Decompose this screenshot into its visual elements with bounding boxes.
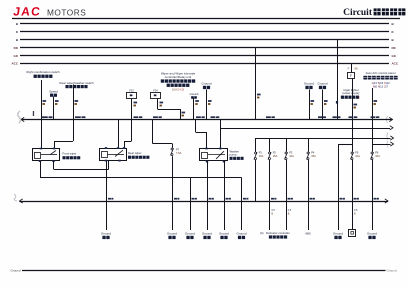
wire main to box3 right pin — [220, 120, 222, 149]
header rule — [12, 18, 400, 20]
wire code at 74.5 — [75, 100, 79, 102]
wire code at 310.5 — [311, 100, 315, 102]
wire jog to fuse172 — [152, 120, 154, 144]
svg-text:Ground: Ground — [387, 268, 397, 272]
wire code at 181.5 — [182, 112, 186, 114]
svg-text:5A: 5A — [355, 68, 358, 71]
main wire left arrow — [21, 117, 24, 121]
connector code B-16 on ground bus — [226, 198, 229, 200]
svg-text:Ground: Ground — [167, 231, 177, 235]
fuse P2 stub — [269, 138, 271, 152]
fuse F172 — [171, 148, 173, 150]
connector code B-18 on ground bus — [271, 198, 274, 200]
fuse P3 — [285, 152, 287, 154]
wire K2 jog — [157, 99, 159, 110]
svg-text:10A: 10A — [355, 154, 360, 158]
wire code at 55 — [55, 100, 59, 102]
bus line B1 — [20, 23, 389, 25]
connector code B-17 on ground bus — [243, 198, 246, 200]
svg-text:controller/Relay unit: controller/Relay unit — [165, 75, 192, 79]
fuse P3 stub — [286, 138, 288, 152]
wire ground r1 drop — [309, 90, 311, 120]
svg-text:7.5A: 7.5A — [176, 151, 182, 155]
connector code I-MR4 A5 on main wire — [211, 116, 216, 118]
svg-text:Ground: Ground — [101, 231, 111, 235]
arrow y144 — [390, 142, 393, 146]
svg-text:F: F — [350, 74, 352, 78]
svg-text:ACC: ACC — [12, 61, 19, 65]
wire fuse P6 down — [372, 160, 374, 230]
svg-text:15A: 15A — [311, 154, 316, 158]
svg-text:P6: P6 — [375, 150, 379, 154]
svg-text:P4: P4 — [311, 150, 315, 154]
connector code B-23 on ground bus — [374, 198, 377, 200]
svg-text:pump: pump — [230, 153, 237, 157]
stray code tick — [33, 111, 34, 116]
connector code I-MR11 A05 on main wire — [75, 116, 81, 118]
wire v338 down — [338, 144, 340, 230]
branch y144 right — [372, 144, 391, 146]
M1 pins — [40, 148, 42, 150]
connector code B-15 on ground bus — [209, 198, 212, 200]
wire jog73 to box1 — [54, 141, 73, 143]
connector code B-13 on ground bus — [174, 198, 177, 200]
svg-text:Ground: Ground — [333, 231, 343, 235]
wire v241 down — [241, 178, 243, 231]
connector code B-12 on ground bus — [108, 198, 111, 200]
connector code I-MR8 A4 on main wire — [371, 116, 376, 118]
connector code B-21 on ground bus — [340, 198, 343, 200]
svg-text:MOTORS: MOTORS — [47, 8, 86, 18]
scan artifact squiggle — [18, 111, 21, 123]
bottom ground rail — [22, 270, 386, 272]
wire fuse P3 down — [286, 160, 288, 230]
svg-text:P2: P2 — [273, 150, 277, 154]
fuse P1 — [255, 152, 257, 154]
wire code at 133.5 — [134, 102, 138, 104]
wire jog to box3 left pin — [195, 120, 197, 133]
rear wiper motor M2 box — [100, 149, 127, 161]
main wire — [21, 119, 393, 121]
wire code at 159.5 — [160, 102, 164, 104]
svg-text:Ground: Ground — [201, 82, 211, 86]
scan artifact squiggle 2 — [14, 194, 17, 201]
main wire right arrow — [389, 117, 392, 121]
fuse P6 — [371, 152, 373, 154]
svg-text:10A: 10A — [375, 154, 380, 158]
bus line K2 — [20, 31, 389, 33]
svg-text:Ground: Ground — [185, 231, 195, 235]
fuse P2 — [269, 152, 271, 154]
svg-text:10A: 10A — [289, 154, 294, 158]
svg-text:P3: P3 — [289, 150, 293, 154]
svg-text:Front wiper: Front wiper — [63, 151, 77, 155]
wire v41 — [41, 80, 43, 149]
wire fuse P1 down — [255, 160, 257, 201]
wire main to box2 pin118 — [118, 120, 120, 149]
wire bus3 to main at x337 — [337, 40, 339, 120]
svg-text:Ground: Ground — [367, 231, 377, 235]
bus line B3 — [20, 39, 389, 41]
connector box K1 — [127, 93, 137, 99]
svg-text:Defroster controller: Defroster controller — [266, 231, 290, 235]
wire v73 — [73, 85, 75, 142]
wire code at 195.3 — [195, 100, 199, 102]
branch y144 left — [338, 144, 352, 146]
svg-text:power supply: power supply — [342, 91, 360, 95]
arrow y138 — [390, 136, 393, 140]
wire v194 — [193, 98, 195, 120]
arrow y128 — [390, 126, 393, 130]
fuse P4 stub — [308, 138, 310, 152]
svg-text:Ground: Ground — [202, 231, 212, 235]
bus line DK4 — [20, 47, 389, 49]
wire M1 pin40 down — [40, 161, 42, 178]
fuse P4 — [307, 152, 309, 154]
svg-text:8|6 4|11 2|7: 8|6 4|11 2|7 — [373, 84, 388, 88]
svg-text:Right combination switch: Right combination switch — [26, 70, 60, 74]
svg-text:P5: P5 — [355, 150, 359, 154]
ground bus wire — [20, 201, 389, 203]
svg-text:F24: F24 — [153, 89, 158, 92]
wire fuse P2 down — [269, 160, 271, 230]
connector code I-MR7 A2 on main wire — [349, 116, 354, 118]
ground bus left arrow — [20, 199, 23, 203]
connector code B-22 on ground bus — [354, 198, 357, 200]
wire fuse P5 down — [352, 160, 354, 230]
wire M1 pin53 to M2 — [53, 161, 55, 169]
connector code I-MR2 A3 on main wire — [153, 116, 158, 118]
wire v53 — [53, 97, 55, 120]
svg-text:Ground: Ground — [304, 82, 314, 86]
bus line ACC6 — [20, 63, 389, 65]
fuse bus y138 — [256, 138, 391, 140]
wire code at 324 — [324, 100, 328, 102]
bus line GK5 — [20, 55, 389, 57]
svg-text:ABS: ABS — [305, 231, 311, 235]
M2 pins — [105, 147, 107, 149]
M3 pins — [205, 148, 207, 150]
wire K1 down to jog — [131, 99, 133, 142]
wire M3 pin224 down — [224, 161, 226, 230]
connector box K2 — [151, 93, 161, 99]
fuse P1 stub — [255, 138, 257, 152]
wire fusebox to fuse row x352 — [352, 79, 354, 152]
svg-text:15A: 15A — [273, 154, 278, 158]
wire code at 353.5 — [354, 104, 358, 106]
connector code I-MR11 A06 on main wire — [42, 116, 48, 118]
washer pump M3 box — [200, 149, 228, 161]
wire fuse172 down — [172, 156, 174, 230]
svg-text:F23: F23 — [129, 89, 134, 92]
svg-text:16 8 5 4 15: 16 8 5 4 15 — [172, 88, 185, 91]
wire M2 pin106 down — [106, 161, 108, 230]
connector box ground — [349, 230, 356, 237]
link bus y177 — [40, 177, 242, 179]
connector code B-14 on ground bus — [192, 198, 195, 200]
tick on wire 337 — [336, 101, 338, 104]
connector code B-01 A2 on main wire — [318, 116, 322, 118]
svg-text:10A: 10A — [259, 154, 264, 158]
connector code I-MR4 A2 on main wire — [196, 116, 201, 118]
svg-text:Rear wiper: Rear wiper — [128, 151, 142, 155]
wire M3 pin207 down — [207, 161, 209, 230]
wire code at 208 — [208, 100, 212, 102]
connector code B-02 A3 on main wire — [333, 116, 337, 118]
wire bus6 to fusebox F — [351, 63, 353, 73]
svg-text:Speed: Speed — [49, 90, 58, 94]
connector code I-MR5 A1 on main wire — [266, 116, 271, 118]
wire code at 257 — [257, 94, 261, 96]
svg-text:Ground: Ground — [190, 92, 199, 96]
svg-text:Ground: Ground — [11, 268, 21, 272]
wire code at 373.5 — [374, 100, 378, 102]
wire autoAC to fuse x372 — [372, 88, 374, 152]
scan artifact arcs right — [387, 116, 388, 123]
svg-text:Rear wiper/washer switch: Rear wiper/washer switch — [59, 81, 94, 85]
wire fuse P4 down — [308, 160, 310, 230]
connector code B-19 on ground bus — [288, 198, 291, 200]
svg-text:Auto A/C control panel: Auto A/C control panel — [366, 71, 396, 75]
ground bus right arrow — [385, 199, 388, 203]
wire v190 down — [190, 178, 192, 231]
svg-text:Ground: Ground — [236, 231, 246, 235]
svg-text:Ground: Ground — [317, 82, 327, 86]
wire jog to box2 pin124 — [124, 141, 132, 143]
svg-text:JAC: JAC — [13, 5, 42, 19]
svg-text:ACC: ACC — [392, 61, 399, 65]
fusebox F cigar — [348, 73, 355, 79]
svg-text:(G): (G) — [260, 232, 264, 235]
branch wire y128 — [220, 128, 390, 130]
svg-text:Ground: Ground — [219, 231, 229, 235]
connector code I-MR2 A1 on main wire — [134, 116, 139, 118]
connector code B-20 on ground bus — [310, 198, 313, 200]
wire v206 upper — [206, 90, 208, 120]
wire ground r2 drop — [322, 90, 324, 120]
front wiper motor M1 box — [33, 149, 60, 161]
svg-text:P1: P1 — [259, 150, 263, 154]
fuse P5 — [351, 152, 353, 154]
wire bus4 to x255 — [255, 48, 257, 120]
svg-text:Circuit: Circuit — [343, 8, 373, 18]
wire code at 42.5 — [43, 100, 47, 102]
